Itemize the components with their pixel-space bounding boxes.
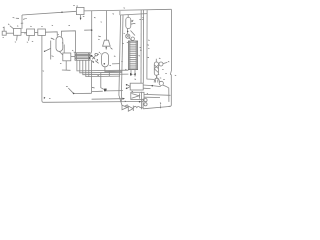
wire leg under B3 long down to bottom bbox=[42, 35, 143, 102]
wire below hopper bbox=[105, 46, 107, 49]
wire above B4 bbox=[63, 45, 65, 54]
wire B5 outlet right upper bbox=[143, 85, 161, 87]
wire top box drop arrow bbox=[79, 15, 81, 19]
wire vertical x147.3 bbox=[147, 10, 154, 79]
label speck near x106 line bbox=[101, 21, 102, 23]
pot ticks bbox=[156, 80, 158, 83]
wire column bottom outlets bbox=[131, 70, 135, 77]
wire right edge vertical bbox=[169, 9, 172, 106]
wire B4 to HX bbox=[71, 56, 75, 58]
wire below Cap2 bbox=[127, 29, 129, 34]
label 9 right bbox=[162, 68, 163, 70]
label speck near P2 pump bbox=[124, 32, 125, 34]
column C1 trays bbox=[129, 42, 137, 69]
junction dot top line bbox=[61, 12, 62, 13]
label 2 near frame top bbox=[142, 18, 143, 20]
trapezoid hopper bbox=[103, 40, 111, 46]
wire left vertical near Cap1 bbox=[50, 41, 52, 60]
vessel V5 hatch bbox=[155, 65, 159, 73]
label 6 right of Cap3 bbox=[114, 55, 116, 57]
label 8 tick bbox=[92, 86, 95, 89]
box B5 bbox=[130, 83, 143, 90]
leader C5 to right bbox=[163, 62, 167, 63]
junction dot B5 in 2 bbox=[126, 88, 128, 90]
wire stub x109.3 bbox=[108, 71, 110, 77]
label speck under far-left box bbox=[3, 36, 4, 38]
label 31 valve cluster marks bbox=[91, 54, 99, 56]
wire pump to column top bbox=[129, 38, 133, 41]
label 17 bbox=[66, 85, 68, 88]
label 10 above B2 bbox=[30, 25, 31, 27]
labels under V5 bbox=[156, 77, 161, 78]
cluster diagonals bbox=[92, 61, 99, 64]
wire pump cluster diagonal bbox=[131, 31, 136, 36]
valve small circle cluster bbox=[95, 53, 98, 56]
dot in Cap3 bbox=[104, 63, 106, 65]
wire B1-B2 bbox=[21, 33, 27, 35]
label 26 bbox=[98, 35, 101, 38]
label above B3 bbox=[41, 25, 42, 27]
wire far-left riser bbox=[3, 27, 5, 32]
box B1 bbox=[14, 29, 21, 36]
wire leg under B1 bbox=[16, 35, 19, 40]
capsule Cap2 reflux drum bbox=[126, 17, 131, 28]
wire HX downpipe 1 bbox=[77, 60, 128, 71]
wire bottom band y99 arrow line bbox=[92, 98, 123, 101]
circle C6 bbox=[159, 81, 163, 85]
label speck 25b bbox=[124, 7, 126, 9]
wire step corner bbox=[112, 63, 120, 65]
wire bottom right line bbox=[143, 106, 171, 108]
wire 17 leader bbox=[68, 88, 73, 93]
label 12 bbox=[69, 24, 71, 26]
junction dot y102 bbox=[139, 101, 141, 103]
column C1 inner walls bbox=[130, 41, 136, 70]
B7 circle 2 bbox=[144, 103, 147, 106]
wire B3 to capsule bbox=[45, 32, 57, 37]
dot Cap1 leader bbox=[44, 51, 45, 52]
B6 internal funnel bbox=[132, 93, 140, 98]
label 13 bbox=[52, 24, 53, 26]
label 41 bbox=[159, 57, 161, 59]
wire second vertical x122.9 bbox=[121, 15, 123, 102]
capsule vessel Cap1 bbox=[56, 37, 63, 52]
label 5 right of feed bbox=[23, 18, 27, 19]
wire Cap2 top stub bbox=[127, 15, 129, 18]
HX end caps bbox=[77, 53, 89, 60]
label speck far left bbox=[3, 26, 4, 28]
box B3 bbox=[38, 29, 46, 35]
label under B3 leg bbox=[51, 38, 55, 40]
pump circle P3 bbox=[131, 37, 134, 40]
label 14 dots bbox=[72, 50, 75, 52]
triangle valve T2 bbox=[128, 106, 133, 111]
label 25 marks bbox=[122, 42, 128, 43]
wire T-stand foot bbox=[62, 69, 71, 71]
wire top long line left bbox=[22, 11, 76, 15]
wire feed down to box B2 bbox=[21, 15, 23, 29]
wire stub to x91.7 bbox=[84, 29, 92, 31]
label 2 left of feed bbox=[13, 17, 19, 18]
label under B1 leg bbox=[15, 41, 16, 43]
box U1 top-middle bbox=[76, 7, 84, 14]
label right of U1 bbox=[83, 15, 85, 17]
leader Cap2 labels bbox=[131, 20, 135, 24]
label 33 bbox=[140, 47, 142, 50]
labels right of Cap2 bbox=[132, 19, 141, 24]
wire B1 inlet diagonal bbox=[10, 26, 14, 29]
wire HX downpipe 3 bbox=[83, 60, 129, 74]
box B6 bbox=[131, 92, 144, 99]
wire vertical x91.7 from top line bbox=[90, 11, 93, 93]
wire HX right outlet bbox=[90, 56, 92, 58]
valve cluster dots bbox=[91, 55, 92, 56]
label speck above Cap1 bbox=[58, 33, 59, 35]
label ticks on x147 vertical bbox=[147, 45, 149, 58]
label under B2 leg bbox=[27, 41, 28, 43]
valve bowtie BT1 bbox=[122, 105, 127, 110]
label speck near bowtie bbox=[125, 100, 126, 102]
dome pot P1 bbox=[154, 78, 159, 82]
label 6 step bbox=[121, 60, 122, 62]
label 7 near B1 inlet bbox=[8, 23, 9, 26]
arrowhead y99 line bbox=[123, 98, 126, 100]
wire B5 inlet funnel bbox=[126, 84, 130, 88]
wire bottom band y93.4 bbox=[74, 92, 92, 94]
label dot near Cap3 left bbox=[99, 52, 102, 54]
wire Cap3 bottom out bbox=[105, 67, 122, 72]
heat exchanger HX bbox=[75, 53, 90, 60]
arrowhead under U1 bbox=[80, 18, 82, 20]
label speck near B6 right bbox=[147, 92, 148, 94]
pump circle P2 bbox=[126, 34, 130, 38]
label 3 left bbox=[32, 40, 33, 42]
dot on hopper stem bbox=[106, 47, 107, 48]
label 35 above B5 bbox=[135, 78, 137, 80]
label speck above C6 bbox=[158, 73, 159, 75]
wire HX downpipe 4 bbox=[86, 60, 120, 76]
wire B6 outlet lower bbox=[144, 96, 160, 98]
vessel V5 right bbox=[154, 62, 158, 75]
wire bottom band y91.5 bbox=[92, 91, 123, 92]
column C1 shell bbox=[128, 41, 137, 70]
cluster bowtie bbox=[92, 56, 95, 59]
wire blob feed vertical bbox=[101, 73, 104, 90]
label speck right of C5 bbox=[168, 61, 169, 63]
label 16 dot leader Cap1 bbox=[45, 49, 51, 52]
label tick x42 vertical bbox=[43, 70, 44, 72]
box B4 bbox=[63, 53, 71, 61]
wire vertical to trapezoid bbox=[106, 11, 108, 40]
wire B5 outlet right lower bbox=[143, 87, 150, 89]
wire V5 stubs bbox=[155, 59, 157, 78]
junction dot stub x91.7 bbox=[91, 29, 93, 31]
label 7 right edge bbox=[175, 74, 176, 76]
label speck right of column bbox=[139, 55, 140, 57]
capsule Cap3 bbox=[102, 53, 109, 67]
wire bowtie row connectors bbox=[127, 106, 143, 108]
label near hopper left bbox=[98, 38, 99, 40]
label 18 bbox=[163, 78, 165, 80]
label speck staircase bbox=[110, 64, 112, 66]
column bottom dark cluster bbox=[130, 73, 136, 76]
wire B2-B3 bbox=[35, 32, 38, 34]
wire HX downpipe 5 long bbox=[88, 60, 90, 76]
label tick frame left bbox=[148, 40, 149, 49]
wire tick above U1 bbox=[76, 5, 78, 7]
wire C6 to down vertical bbox=[163, 85, 169, 102]
circle C5 bbox=[159, 62, 163, 66]
pump arcs bbox=[134, 106, 140, 107]
wire long vertical x119.9 bbox=[119, 11, 121, 15]
label 34 bbox=[60, 62, 61, 64]
dark blob bottom center bbox=[104, 89, 107, 92]
box B2 bbox=[27, 29, 35, 35]
label 9 above B1 bbox=[17, 25, 18, 27]
label 24 leader bbox=[110, 48, 112, 50]
label above B4 bbox=[62, 42, 63, 44]
wire B6 outlet upper bbox=[144, 93, 171, 96]
box far-left small bbox=[2, 31, 6, 35]
wire HX downpipe 2 bbox=[80, 60, 122, 73]
wire capsule top right to exchanger bbox=[61, 31, 75, 53]
arrow mark bottom right bbox=[160, 102, 162, 108]
arrowhead bottom left corner bbox=[44, 97, 46, 99]
frame top line bbox=[121, 14, 148, 15]
label speck 22 bbox=[94, 17, 96, 19]
box B7 pump box bbox=[141, 92, 143, 110]
wire long vertical x141.4 bbox=[140, 10, 142, 83]
wire T-stand below B4 bbox=[65, 61, 67, 70]
junction dot 17 line bbox=[73, 93, 75, 95]
label 39 bbox=[132, 90, 134, 92]
dot under Cap2 bbox=[127, 31, 128, 32]
label speck right low bbox=[165, 72, 167, 74]
label speck near column bottom bbox=[125, 68, 126, 70]
wire leg under B2 bbox=[28, 35, 31, 40]
wire stub parallel bbox=[21, 22, 23, 24]
junction dot B5 in 1 bbox=[126, 84, 128, 86]
wire top long line right bbox=[84, 9, 171, 11]
label 11 near U1 bbox=[73, 4, 75, 6]
HX internal tubes bbox=[75, 54, 90, 58]
B7 circle 1 bbox=[144, 99, 147, 102]
label speck 23 bbox=[113, 13, 115, 15]
valve bar bbox=[132, 106, 134, 111]
label speck left of blob bbox=[98, 74, 100, 76]
wire long vertical x144.6 bbox=[142, 10, 144, 83]
label speck 8b bbox=[49, 97, 51, 99]
junction dot right line bbox=[152, 85, 154, 87]
wire far-left connector bbox=[6, 32, 13, 34]
wire Cap1 outlet to B4 bbox=[59, 51, 63, 55]
label dots near x50.7 bottom bbox=[52, 55, 54, 58]
wire frame left vertical bbox=[119, 15, 122, 105]
